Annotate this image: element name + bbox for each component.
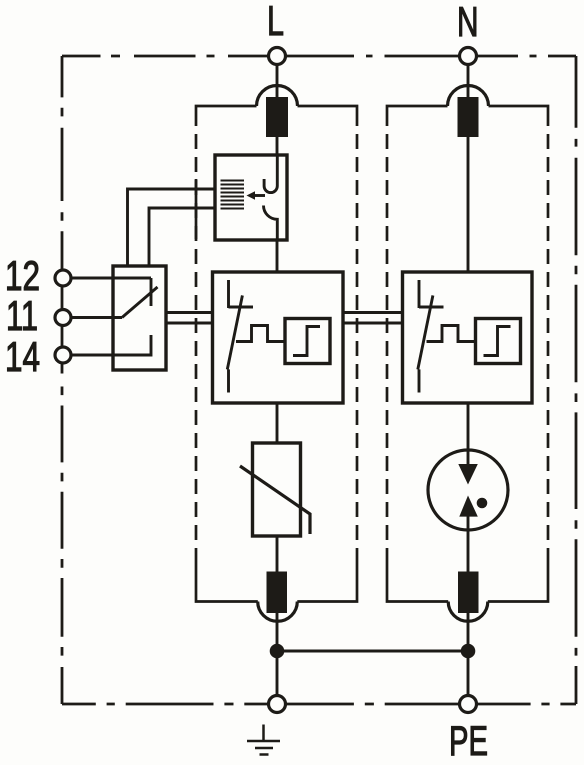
- svg-text:11: 11: [6, 292, 38, 339]
- U2 trip tick: [419, 306, 444, 309]
- wire N terminal to disconnector TD2: [467, 65, 470, 99]
- thermal disconnector TD1 (arc): [257, 86, 298, 107]
- mechanical linkage S1 to U1: [166, 311, 213, 314]
- terminal 11: [55, 310, 71, 326]
- ground symbol: [247, 725, 280, 755]
- remote signalling contact S1 (box): [113, 266, 166, 370]
- PE bus wire: [277, 650, 468, 653]
- terminal 11 wire: [71, 316, 122, 319]
- svg-text:L: L: [267, 0, 284, 44]
- SPD module U1 (box): [213, 272, 344, 403]
- thermal disconnector TD3 (arc): [258, 602, 298, 622]
- F1 trigger electrode dot: [477, 498, 488, 509]
- SPD module U2 (box): [403, 272, 533, 403]
- junction dot B: [461, 644, 476, 659]
- trip device U3 (thermal trip box): [215, 155, 287, 240]
- U1 trip tick: [229, 306, 254, 309]
- U2 lower lead: [418, 369, 421, 392]
- varistor MOV1 (characteristic stroke): [240, 466, 310, 534]
- signal wire U3 to remote contact (outer): [128, 189, 216, 266]
- U1 lower lead: [227, 369, 230, 392]
- thermal disconnector TD3 (fuse body): [267, 572, 288, 614]
- terminal N: [460, 48, 477, 65]
- wire U3 to SPD box U1: [276, 240, 279, 272]
- U2 step symbol: [484, 327, 511, 356]
- F1 upper electrode (down arrow): [458, 464, 478, 485]
- terminal 14 wire: [71, 335, 151, 355]
- U1 surge waveform: [236, 326, 285, 342]
- thermal element (hatched block): [221, 181, 245, 209]
- inner unit box L-side (dashed): [196, 106, 357, 602]
- svg-text:N: N: [457, 0, 479, 45]
- wire TD3 to junction: [276, 613, 279, 696]
- wire MOV1 to disconnector TD3: [276, 536, 279, 575]
- inner unit box N-side (dashed): [387, 106, 548, 602]
- U1 step symbol: [293, 327, 320, 356]
- terminal 14: [55, 347, 71, 363]
- wire TD2 to SPD box U2: [467, 137, 470, 272]
- U1 switch blade: [227, 295, 242, 369]
- trip arrow: [253, 194, 265, 197]
- varistor MOV1 (body): [253, 443, 301, 536]
- junction dot A: [270, 644, 285, 659]
- wire TD1 to trip device U3: [276, 137, 279, 156]
- svg-text:PE: PE: [449, 717, 488, 764]
- changeover blade: [122, 287, 158, 318]
- terminal 12: [55, 270, 71, 286]
- enclosure outline (dash-dot device frame): [62, 56, 576, 704]
- F1 lower electrode (up arrow): [459, 496, 478, 517]
- wire L terminal to disconnector TD1: [276, 65, 279, 99]
- lower contact hook: [264, 206, 278, 241]
- U2 trigger box: [476, 319, 521, 364]
- wire F1 lower: [467, 514, 470, 575]
- terminal PE: [460, 696, 477, 713]
- triggered spark gap F1 (circle): [428, 450, 508, 530]
- svg-text:14: 14: [5, 333, 40, 380]
- U2 disconnect switch upper lead: [418, 280, 421, 308]
- terminal earth-side: [269, 696, 286, 713]
- U1 disconnect switch upper lead: [227, 280, 230, 308]
- thermal disconnector TD1 (fuse body): [266, 97, 288, 137]
- U1 trigger box: [285, 319, 330, 364]
- U2 surge waveform: [427, 326, 476, 342]
- signal wire U3 to remote contact (inner): [149, 208, 215, 266]
- wire U1 to varistor MOV1: [276, 403, 279, 443]
- terminal 12 wire: [71, 277, 151, 280]
- terminal L: [269, 48, 286, 65]
- wire TD4 to junction: [467, 613, 470, 696]
- thermal disconnector TD4 (arc): [448, 602, 488, 622]
- contact 12 post: [150, 278, 153, 306]
- mechanical linkage U1 to U2: [343, 311, 402, 314]
- wire U2 to spark gap F1: [467, 403, 470, 467]
- U2 switch blade: [418, 295, 433, 369]
- thermal disconnector TD2 (fuse body): [458, 97, 479, 137]
- upper contact hook: [264, 155, 277, 193]
- thermal disconnector TD4 (fuse body): [458, 572, 479, 614]
- thermal disconnector TD2 (arc): [448, 86, 489, 107]
